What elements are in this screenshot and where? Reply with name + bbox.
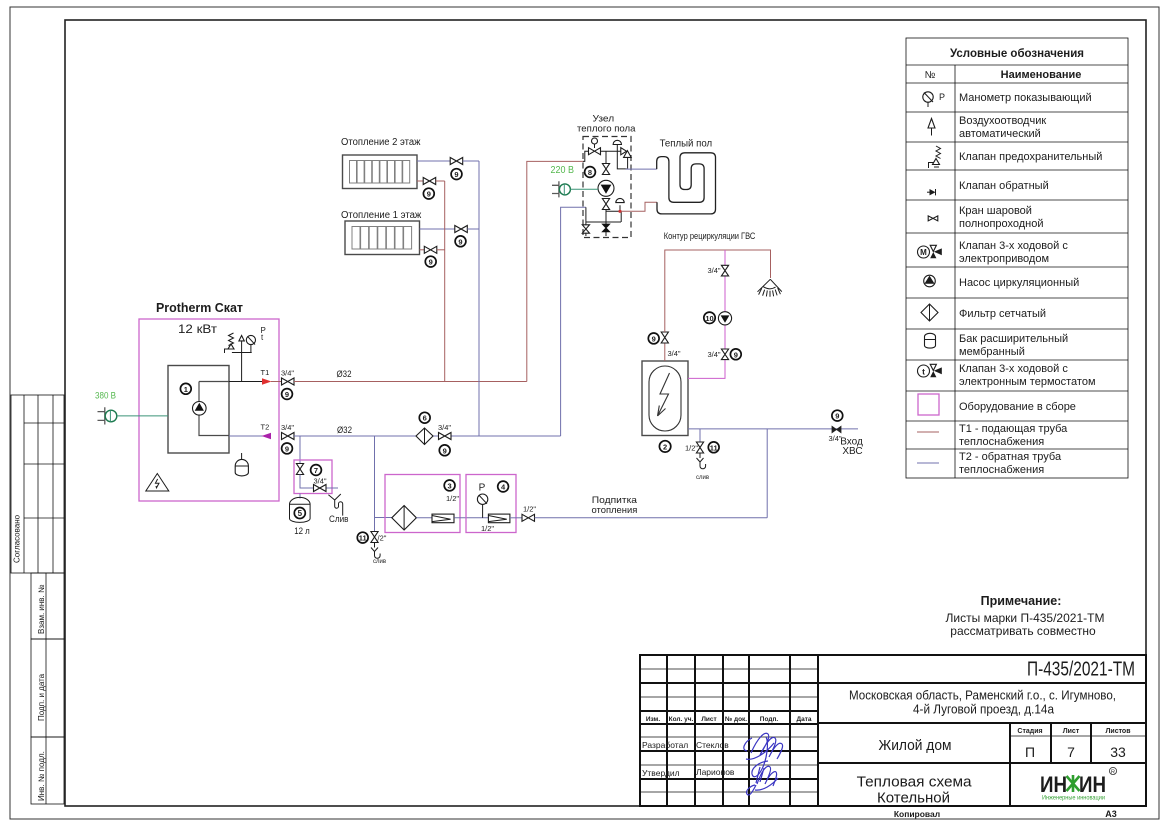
svg-text:Фильтр сетчатый: Фильтр сетчатый bbox=[959, 308, 1046, 320]
node 9 (DHW valve) bbox=[648, 333, 659, 344]
expansion tank 12l bbox=[290, 494, 311, 537]
svg-text:t: t bbox=[922, 367, 925, 377]
boiler inner loop bbox=[199, 382, 229, 436]
node 3 bbox=[444, 480, 455, 491]
svg-text:Ø32: Ø32 bbox=[337, 369, 352, 379]
pipe between strainer and reducer bbox=[416, 517, 432, 519]
unit return drop bbox=[585, 207, 587, 236]
3-way mixing valve bbox=[589, 138, 601, 155]
legend symbol: check valve bbox=[927, 189, 936, 195]
svg-text:электронным термостатом: электронным термостатом bbox=[959, 376, 1096, 388]
pipe valve to pump column bbox=[601, 151, 621, 163]
legend symbol: 3-way valve with thermostat bbox=[918, 364, 942, 377]
make-up branch from T2 bbox=[374, 436, 376, 531]
svg-text:12 кВт: 12 кВт bbox=[178, 322, 218, 336]
red heating riser bbox=[444, 181, 446, 382]
strainer filter on T2 bbox=[416, 428, 433, 445]
svg-text:рассматривать совместно: рассматривать совместно bbox=[950, 624, 1096, 638]
svg-text:Клапан предохранительный: Клапан предохранительный bbox=[959, 151, 1102, 163]
svg-text:ХВС: ХВС bbox=[842, 446, 862, 457]
svg-text:/2": /2" bbox=[378, 534, 387, 543]
pipe to box 4 bbox=[454, 517, 488, 519]
radiator 1 supply pipe bbox=[420, 249, 425, 251]
svg-text:1/2": 1/2" bbox=[481, 524, 494, 533]
svg-text:1: 1 bbox=[184, 385, 188, 394]
power plug 220V bbox=[551, 165, 575, 197]
check valve in box 4 bbox=[481, 514, 510, 533]
shower head bbox=[758, 279, 782, 297]
node 9 bbox=[425, 256, 436, 267]
svg-text:33: 33 bbox=[1110, 744, 1126, 760]
approval strip table (Согласовано) bbox=[11, 395, 64, 573]
cold water pipe bbox=[688, 428, 858, 430]
expansion vessel on boiler bbox=[235, 453, 248, 476]
node 11 (tank drain) bbox=[708, 442, 719, 453]
air vent bbox=[239, 336, 244, 353]
T2 return pipe main bbox=[294, 435, 561, 437]
svg-text:Дата: Дата bbox=[796, 716, 811, 723]
bottom collector pipe bbox=[586, 221, 621, 223]
make-up unit box 4 bbox=[466, 475, 516, 533]
svg-text:3/4": 3/4" bbox=[438, 423, 451, 432]
T2 inlet pipe bbox=[229, 422, 271, 439]
svg-text:3: 3 bbox=[448, 481, 452, 490]
svg-text:Котельной: Котельной bbox=[877, 790, 950, 807]
drain outlet bbox=[328, 494, 348, 525]
expansion tank branch pipe bbox=[299, 436, 301, 463]
valve on tank branch bbox=[296, 464, 303, 475]
radiator 1 return pipe bbox=[420, 228, 455, 230]
svg-text:9: 9 bbox=[835, 412, 839, 421]
node 8 bbox=[585, 167, 596, 178]
svg-text:Тепловая схема: Тепловая схема bbox=[857, 774, 973, 791]
svg-text:Условные обозначения: Условные обозначения bbox=[950, 48, 1084, 60]
valve DHW 3/4" bbox=[661, 332, 681, 358]
node 10 bbox=[704, 312, 715, 323]
svg-text:Подп. и дата: Подп. и дата bbox=[37, 673, 46, 721]
note text bbox=[946, 594, 1105, 638]
svg-text:Ларионов: Ларионов bbox=[696, 767, 735, 777]
svg-text:Согласовано: Согласовано bbox=[13, 514, 22, 563]
valve radiator 2 supply bbox=[423, 178, 436, 185]
boiler package outline (equipment box) bbox=[139, 319, 279, 501]
svg-text:Контур рециркуляции ГВС: Контур рециркуляции ГВС bbox=[664, 231, 756, 242]
svg-text:Инв. № подл.: Инв. № подл. bbox=[37, 751, 46, 801]
svg-text:Кран шаровой: Кран шаровой bbox=[959, 205, 1032, 217]
label Узел теплого пола bbox=[577, 114, 636, 135]
air vent dome top bbox=[613, 140, 627, 169]
ball valve 3/4" on T2 bbox=[438, 423, 451, 440]
svg-text:теплоснабжения: теплоснабжения bbox=[959, 464, 1044, 476]
svg-text:Примечание:: Примечание: bbox=[981, 594, 1062, 608]
node 9 (cold water valve) bbox=[832, 410, 843, 421]
svg-text:электроприводом: электроприводом bbox=[959, 253, 1049, 265]
svg-text:ИН: ИН bbox=[1040, 772, 1067, 797]
legend symbol: safety valve bbox=[929, 146, 941, 168]
svg-text:Манометр показывающий: Манометр показывающий bbox=[959, 92, 1092, 104]
svg-text:9: 9 bbox=[734, 350, 738, 359]
svg-text:слив: слив bbox=[696, 475, 709, 481]
legend table Условные обозначения bbox=[906, 38, 1128, 478]
svg-text:Т2: Т2 bbox=[261, 422, 270, 431]
legend symbol: strainer filter bbox=[921, 304, 938, 321]
balancing valve bottom (black) bbox=[602, 224, 609, 232]
svg-text:Клапан 3-х ходовой с: Клапан 3-х ходовой с bbox=[959, 240, 1068, 252]
boiler body bbox=[168, 366, 229, 454]
power plug 380V bbox=[95, 390, 117, 424]
legend symbol: 3-way valve with motor bbox=[918, 245, 942, 258]
svg-text:2: 2 bbox=[663, 442, 667, 451]
svg-text:Лист: Лист bbox=[701, 716, 716, 723]
svg-text:Отопление 2 этаж: Отопление 2 этаж bbox=[341, 137, 421, 148]
svg-text:Оборудование в сборе: Оборудование в сборе bbox=[959, 401, 1076, 413]
legend symbol: circulation pump bbox=[924, 275, 936, 287]
svg-text:3/4": 3/4" bbox=[708, 266, 721, 275]
svg-text:11: 11 bbox=[359, 534, 367, 543]
radiator 2 return pipe bbox=[417, 160, 450, 162]
coil return pipe bbox=[622, 202, 657, 211]
pipe valve to blue riser bbox=[467, 228, 479, 230]
svg-text:3/4": 3/4" bbox=[281, 369, 294, 378]
svg-text:5: 5 bbox=[298, 509, 303, 518]
power wire 380V bbox=[117, 415, 168, 417]
coil return junction bbox=[606, 205, 622, 222]
svg-text:Лист: Лист bbox=[1063, 728, 1080, 735]
cold water inlet valve bbox=[829, 426, 863, 457]
svg-text:Protherm Скат: Protherm Скат bbox=[156, 301, 243, 315]
boiler pump bbox=[193, 402, 207, 416]
svg-text:Т1: Т1 bbox=[261, 368, 270, 377]
frame margin block Инв. № подл. bbox=[31, 737, 64, 804]
svg-text:9: 9 bbox=[443, 446, 447, 455]
pipe check valve down to coil outlet bbox=[627, 157, 629, 168]
drain valve 1/2" bbox=[371, 532, 378, 543]
make-up valve 1/2" bbox=[522, 505, 536, 522]
ball valve T1 3/4" bbox=[281, 369, 294, 386]
svg-text:№: № bbox=[925, 70, 936, 81]
power wire 220V bbox=[570, 188, 598, 190]
pipe valve to red riser bbox=[437, 249, 445, 251]
svg-text:мембранный: мембранный bbox=[959, 346, 1025, 358]
svg-text:Клапан 3-х ходовой с: Клапан 3-х ходовой с bbox=[959, 363, 1068, 375]
radiator floor 1 bbox=[345, 221, 420, 255]
svg-text:теплого пола: теплого пола bbox=[577, 124, 636, 135]
svg-text:П: П bbox=[1025, 744, 1035, 760]
svg-text:7: 7 bbox=[314, 466, 318, 475]
svg-text:1/2": 1/2" bbox=[685, 444, 698, 453]
legend symbol: pressure gauge bbox=[923, 92, 945, 107]
svg-text:слив: слив bbox=[373, 559, 386, 565]
svg-text:теплоснабжения: теплоснабжения bbox=[959, 436, 1044, 448]
node 9 (T2 filter valve) bbox=[439, 445, 450, 456]
svg-text:М: М bbox=[920, 248, 927, 257]
node 9 (T1 valve) bbox=[282, 389, 293, 400]
svg-text:Бак расширительный: Бак расширительный bbox=[959, 333, 1068, 345]
node 9 (T2 valve) bbox=[282, 443, 293, 454]
svg-text:Теплый пол: Теплый пол bbox=[660, 139, 713, 150]
tank drain branch bbox=[699, 429, 701, 442]
check valve top right bbox=[621, 148, 631, 158]
node 2 bbox=[659, 441, 670, 452]
pipe pump column to bottom bbox=[605, 210, 607, 237]
svg-text:Кол. уч.: Кол. уч. bbox=[669, 716, 694, 723]
svg-text:R: R bbox=[1111, 770, 1115, 776]
svg-text:полнопроходной: полнопроходной bbox=[959, 218, 1044, 230]
svg-text:1/2": 1/2" bbox=[446, 494, 459, 503]
make-up unit box 3 bbox=[385, 475, 460, 533]
recirc valve lower 3/4" bbox=[708, 349, 729, 360]
make-up pipe to boxes bbox=[375, 517, 393, 519]
recirculation pump bbox=[718, 312, 731, 325]
svg-text:1/2": 1/2" bbox=[523, 505, 536, 514]
svg-text:Изм.: Изм. bbox=[646, 716, 661, 723]
svg-text:10: 10 bbox=[705, 314, 713, 323]
svg-text:Взам. инв. №: Взам. инв. № bbox=[37, 584, 46, 634]
svg-text:отопления: отопления bbox=[592, 505, 638, 516]
tank drain pipe bbox=[300, 475, 338, 489]
balancing valve on pump column bbox=[602, 164, 609, 175]
node 6 bbox=[419, 412, 430, 423]
tank drain valve 1/2" bbox=[685, 442, 704, 453]
svg-text:Т1 - подающая труба: Т1 - подающая труба bbox=[959, 423, 1068, 435]
svg-text:Клапан обратный: Клапан обратный bbox=[959, 180, 1049, 192]
pipe valve to red riser bbox=[436, 180, 445, 182]
radiator 2 supply pipe bbox=[417, 180, 423, 182]
drain valve bottom left bbox=[582, 225, 589, 233]
tank drain outlet bbox=[696, 453, 709, 481]
svg-text:9: 9 bbox=[427, 190, 431, 199]
node 7 bbox=[311, 465, 322, 476]
svg-text:Московская область, Раменский: Московская область, Раменский г.о., с. И… bbox=[849, 689, 1116, 703]
legend symbol: ball valve bbox=[928, 216, 938, 221]
valve under pump bbox=[602, 199, 609, 210]
floor-heating supply riser bbox=[527, 161, 583, 381]
svg-text:380 В: 380 В bbox=[95, 390, 116, 401]
supply stub into unit bbox=[583, 151, 589, 161]
svg-text:Листов: Листов bbox=[1105, 728, 1131, 735]
pipe to make-up valve bbox=[510, 517, 522, 519]
radiator floor 2 bbox=[343, 155, 418, 189]
valve radiator 2 return bbox=[450, 158, 463, 165]
frame margin block Взам. инв. № bbox=[31, 573, 64, 639]
make-up pipe to cold water bbox=[535, 517, 768, 519]
check valve in box 3 bbox=[432, 514, 454, 523]
signature scribbles bbox=[744, 733, 783, 795]
node 9 (recirc valve) bbox=[730, 349, 741, 360]
svg-text:№ док.: № док. bbox=[725, 716, 747, 723]
svg-text:P: P bbox=[939, 92, 945, 102]
svg-text:9: 9 bbox=[285, 444, 289, 453]
legend symbol: air vent bbox=[928, 119, 935, 136]
expansion tank hookup box bbox=[294, 460, 332, 494]
floor-heating return riser bbox=[561, 207, 586, 436]
svg-text:3/4": 3/4" bbox=[708, 350, 721, 359]
drain outlet small bbox=[371, 543, 386, 566]
svg-text:Стадия: Стадия bbox=[1017, 728, 1042, 735]
svg-text:7: 7 bbox=[1067, 744, 1075, 760]
drain valve 3/4" bbox=[314, 485, 327, 492]
svg-text:3/4": 3/4" bbox=[668, 349, 681, 358]
svg-text:3/4": 3/4" bbox=[281, 423, 294, 432]
pipe valve to blue riser bbox=[463, 160, 479, 162]
legend symbol: assembled equipment box bbox=[918, 394, 939, 415]
title block frame bbox=[640, 655, 1146, 819]
node 9 bbox=[423, 188, 434, 199]
svg-text:Утвердил: Утвердил bbox=[642, 768, 680, 778]
svg-text:Воздухоотводчик: Воздухоотводчик bbox=[959, 115, 1046, 127]
svg-text:Т2 - обратная труба: Т2 - обратная труба bbox=[959, 451, 1062, 463]
svg-text:П-435/2021-ТМ: П-435/2021-ТМ bbox=[1027, 659, 1135, 681]
svg-text:4-й Луговой проезд, д.14а: 4-й Луговой проезд, д.14а bbox=[913, 703, 1054, 717]
safety valve bbox=[225, 333, 235, 353]
svg-text:9: 9 bbox=[652, 334, 656, 343]
node 1 bbox=[180, 383, 191, 394]
svg-text:Подп.: Подп. bbox=[760, 716, 779, 723]
svg-text:9: 9 bbox=[285, 390, 289, 399]
air vent dome lower bbox=[616, 198, 624, 202]
floor unit pump bbox=[598, 180, 614, 196]
T1 outlet pipe bbox=[229, 368, 282, 385]
svg-text:Жилой дом: Жилой дом bbox=[879, 737, 952, 754]
make-up connection drop bbox=[766, 429, 768, 518]
DHW pipe to shower bbox=[665, 250, 771, 332]
ball valve T2 3/4" bbox=[281, 423, 294, 440]
recirculation pipe bbox=[688, 250, 725, 378]
legend symbol: T2 return pipe bbox=[917, 462, 939, 464]
svg-text:Стеклов: Стеклов bbox=[696, 740, 729, 750]
svg-text:P: P bbox=[479, 483, 486, 494]
svg-text:ИН: ИН bbox=[1079, 772, 1106, 797]
pressure gauge bbox=[246, 326, 266, 353]
svg-text:3/4": 3/4" bbox=[314, 477, 327, 486]
recirc valve top 3/4" bbox=[708, 265, 729, 276]
T1 supply pipe to manifold bbox=[294, 381, 527, 383]
blue heating riser bbox=[478, 161, 480, 436]
valve radiator 1 return bbox=[455, 226, 468, 233]
svg-text:А3: А3 bbox=[1105, 809, 1117, 819]
node 11 (drain valve) bbox=[357, 532, 368, 543]
node 9 bbox=[451, 169, 462, 180]
legend symbol: T1 supply pipe bbox=[917, 431, 939, 433]
svg-text:Слив: Слив bbox=[329, 514, 349, 525]
floor heating unit box (dashed) bbox=[583, 137, 631, 238]
svg-text:6: 6 bbox=[423, 414, 427, 423]
node 4 bbox=[498, 481, 509, 492]
svg-text:Листы марки П-435/2021-ТМ: Листы марки П-435/2021-ТМ bbox=[946, 611, 1105, 625]
node 9 bbox=[455, 236, 466, 247]
svg-text:9: 9 bbox=[429, 258, 433, 267]
svg-text:220 В: 220 В bbox=[551, 165, 575, 176]
gauge in box 4 bbox=[477, 483, 487, 518]
valve radiator 1 supply bbox=[424, 246, 437, 253]
svg-text:Отопление 1 этаж: Отопление 1 этаж bbox=[341, 210, 422, 221]
svg-text:Ø32: Ø32 bbox=[337, 425, 352, 435]
svg-text:автоматический: автоматический bbox=[959, 128, 1041, 140]
coil outlet pipe bbox=[626, 168, 657, 170]
svg-text:9: 9 bbox=[454, 170, 458, 179]
svg-text:Наименование: Наименование bbox=[1001, 69, 1082, 81]
svg-text:Разработал: Разработал bbox=[642, 740, 688, 750]
electric hazard triangle bbox=[146, 474, 169, 492]
svg-text:Инженерные инновации: Инженерные инновации bbox=[1042, 795, 1105, 802]
svg-text:9: 9 bbox=[458, 237, 462, 246]
DHW supply riser bbox=[664, 343, 666, 361]
label Подпитка отопления bbox=[592, 495, 638, 516]
svg-text:Насос циркуляционный: Насос циркуляционный bbox=[959, 277, 1079, 289]
safety group riser bbox=[232, 353, 252, 382]
floor heating coil bbox=[657, 153, 716, 214]
svg-text:8: 8 bbox=[588, 168, 592, 177]
legend symbol: expansion tank bbox=[925, 333, 936, 348]
INZHIN logo bbox=[1040, 767, 1117, 801]
strainer in box 3 bbox=[392, 506, 417, 531]
svg-text:12 л: 12 л bbox=[294, 526, 310, 536]
svg-text:11: 11 bbox=[710, 443, 718, 452]
svg-text:Копировал: Копировал bbox=[894, 809, 940, 819]
frame margin block Подп. и дата bbox=[31, 639, 64, 737]
DHW tank bbox=[642, 361, 688, 436]
